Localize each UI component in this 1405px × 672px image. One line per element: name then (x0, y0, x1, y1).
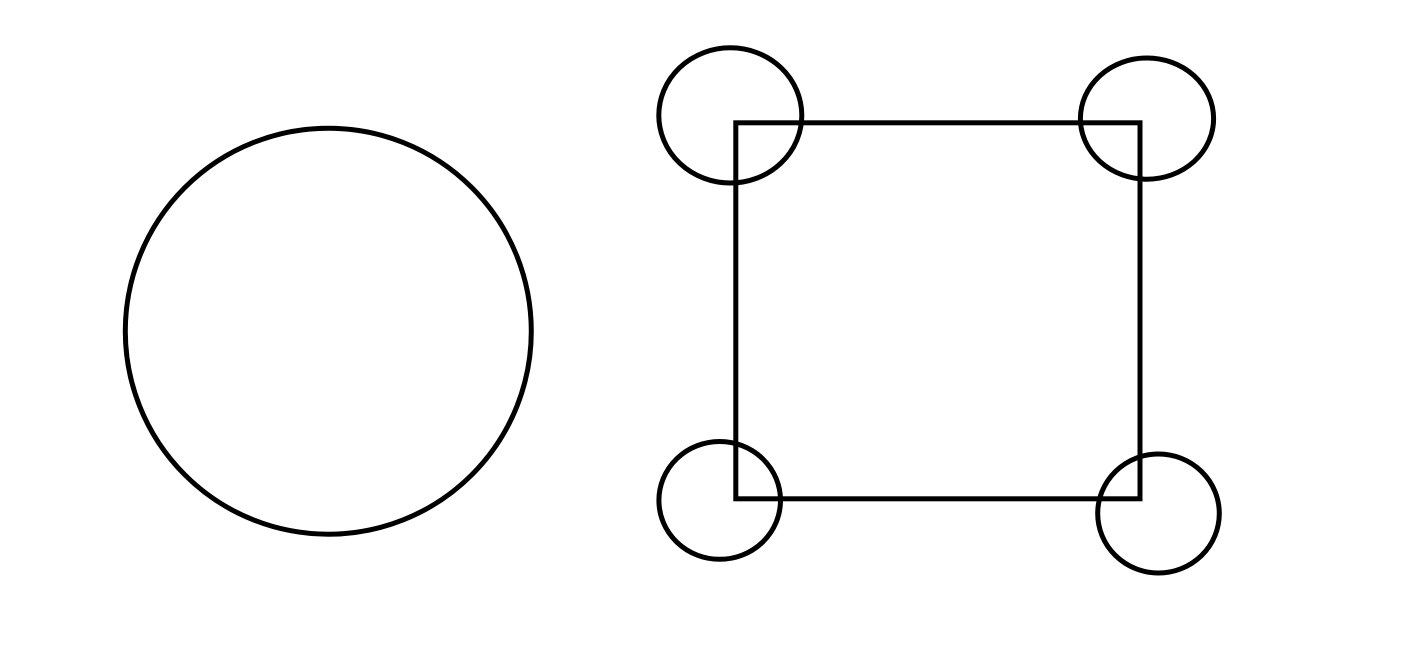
corner circle top-left (659, 48, 802, 183)
corner circle top-right (1080, 58, 1213, 179)
large circle (125, 128, 531, 534)
corner circle bottom-right (1098, 454, 1220, 573)
square (736, 123, 1140, 499)
corner circle bottom-left (659, 442, 781, 560)
